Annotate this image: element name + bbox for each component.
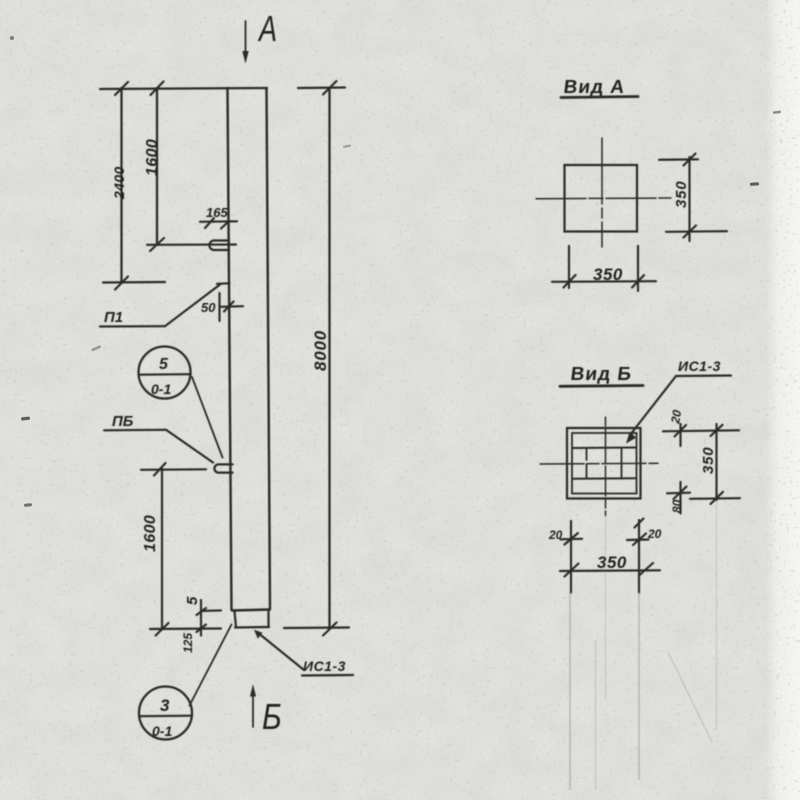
dim 350 right (view A) (659, 154, 727, 242)
svg-text:А: А (257, 8, 277, 49)
right light scan band (766, 0, 800, 800)
label IS1-3 view B (626, 358, 731, 444)
svg-text:0-1: 0-1 (151, 381, 171, 397)
svg-text:Б: Б (262, 698, 282, 738)
callout circle 3 (139, 625, 232, 740)
svg-text:8000: 8000 (311, 330, 330, 371)
dim 80 right (view B) (667, 482, 690, 514)
callout circle 5 (139, 347, 223, 458)
inner square view B (572, 433, 637, 494)
svg-text:Вид Б: Вид Б (569, 364, 633, 385)
dim 1600 lower (156, 469, 169, 636)
column joint line (232, 610, 270, 611)
liner divider right (621, 448, 623, 479)
dim 50 (201, 293, 243, 321)
svg-text:1600: 1600 (144, 139, 161, 176)
label IS1-3 main (254, 630, 353, 676)
hook leader line (147, 243, 236, 245)
view A centerline horizontal (536, 197, 671, 200)
svg-text:2400: 2400 (111, 166, 127, 200)
outer square view B (567, 428, 641, 499)
dim 165 tick (200, 218, 237, 229)
dim 2400 ext (103, 281, 165, 284)
view B centerline vertical (605, 417, 607, 516)
dim 350 right (view B) (690, 424, 740, 504)
svg-text:50: 50 (201, 300, 216, 315)
column right edge (267, 88, 271, 609)
svg-text:5: 5 (184, 596, 201, 605)
svg-text:350: 350 (597, 553, 627, 572)
dim 350 bottom (view B) (560, 553, 660, 577)
column tip left edge (235, 611, 237, 627)
liner bottom edge (573, 477, 637, 480)
svg-text:20: 20 (647, 527, 662, 541)
svg-text:0-1: 0-1 (152, 723, 172, 739)
dim 5 (184, 596, 221, 636)
svg-text:350: 350 (673, 181, 690, 208)
dim 350 bottom (view A) (552, 246, 656, 291)
outlet mark (217, 282, 230, 285)
scan edge artifacts (10, 36, 781, 507)
column left edge (228, 88, 232, 610)
dim 8000 line (323, 81, 337, 636)
view arrow A (242, 21, 248, 64)
ground line right (284, 626, 349, 629)
svg-text:165: 165 (206, 205, 228, 220)
svg-text:80: 80 (670, 499, 684, 513)
dim 1600 line (150, 82, 164, 252)
svg-text:ПБ: ПБ (112, 413, 134, 430)
svg-text:3: 3 (160, 696, 170, 715)
svg-text:ИС1-3: ИС1-3 (303, 658, 346, 674)
dim 20 top right (view B) (663, 409, 739, 446)
column tip bottom (235, 626, 269, 629)
svg-text:125: 125 (181, 633, 195, 653)
title Vid A (561, 77, 638, 98)
label P1 (100, 285, 220, 327)
liner top edge (573, 447, 637, 450)
svg-text:1600: 1600 (142, 515, 159, 552)
svg-text:350: 350 (593, 265, 623, 284)
svg-text:350: 350 (700, 447, 717, 474)
lifting loop P1 (209, 241, 229, 251)
column tip right edge (267, 611, 269, 627)
svg-text:20: 20 (548, 528, 563, 542)
view A centerline vertical (601, 138, 603, 247)
lifting loop PB (214, 464, 232, 472)
label PB (104, 413, 213, 463)
svg-text:20: 20 (668, 409, 684, 426)
svg-text:Вид А: Вид А (562, 77, 626, 98)
view B centerline horizontal (540, 462, 658, 465)
square section view A (565, 165, 638, 232)
svg-text:5: 5 (159, 356, 169, 373)
dim tick at PB level (141, 463, 206, 476)
bottom ext right (view B) (635, 519, 644, 593)
dim 2400 line (115, 82, 128, 290)
liner divider left (586, 448, 588, 479)
view arrow B (250, 684, 256, 727)
bottom ext left (view B) (570, 521, 572, 593)
svg-text:П1: П1 (104, 309, 123, 326)
top extension line left (100, 88, 267, 89)
dim 20 bottom right (627, 527, 662, 545)
title Vid B (560, 364, 643, 386)
top extension line right (298, 86, 345, 89)
ground line left (150, 627, 221, 630)
dim 20 bottom left (548, 528, 582, 545)
faint scan streaks (570, 500, 717, 790)
svg-text:ИС1-3: ИС1-3 (678, 358, 721, 374)
